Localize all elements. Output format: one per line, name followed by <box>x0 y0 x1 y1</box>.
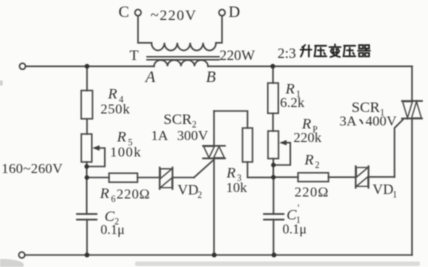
svg-text:VD: VD <box>373 182 394 198</box>
svg-text:220k: 220k <box>294 131 322 146</box>
svg-text:R: R <box>226 166 236 182</box>
svg-text:C: C <box>119 4 130 21</box>
svg-text:1A: 1A <box>151 129 169 144</box>
svg-text:220Ω: 220Ω <box>295 186 330 201</box>
svg-text:R: R <box>99 186 109 202</box>
svg-text:T: T <box>130 48 139 64</box>
svg-text:B: B <box>206 69 216 86</box>
svg-text:160~260V: 160~260V <box>2 162 63 177</box>
svg-text:250k: 250k <box>101 103 131 118</box>
svg-text:2: 2 <box>315 160 320 170</box>
svg-text:10k: 10k <box>226 181 247 196</box>
svg-text:R: R <box>304 153 314 169</box>
svg-text:2: 2 <box>198 190 203 200</box>
svg-text:300V: 300V <box>177 129 208 144</box>
svg-text:': ' <box>298 204 300 215</box>
svg-text:2:3: 2:3 <box>278 46 297 62</box>
svg-text:220W: 220W <box>220 48 256 64</box>
svg-text:D: D <box>229 4 241 21</box>
svg-text:~220V: ~220V <box>151 8 197 24</box>
svg-text:400V: 400V <box>366 115 397 130</box>
svg-text:R: R <box>116 130 126 146</box>
svg-text:1: 1 <box>393 190 398 200</box>
svg-text:2: 2 <box>192 120 197 130</box>
svg-text:0.1μ: 0.1μ <box>101 222 125 237</box>
svg-text:A: A <box>145 69 156 86</box>
svg-text:100k: 100k <box>110 146 142 161</box>
svg-text:3A: 3A <box>340 115 358 130</box>
svg-text:VD: VD <box>178 183 199 199</box>
svg-text:0.1μ: 0.1μ <box>283 222 307 237</box>
svg-text:6: 6 <box>111 194 116 204</box>
svg-text:6.2k: 6.2k <box>280 96 305 111</box>
svg-text:SCR: SCR <box>164 112 192 128</box>
svg-text:R: R <box>107 87 117 103</box>
svg-text:220Ω: 220Ω <box>117 188 151 203</box>
